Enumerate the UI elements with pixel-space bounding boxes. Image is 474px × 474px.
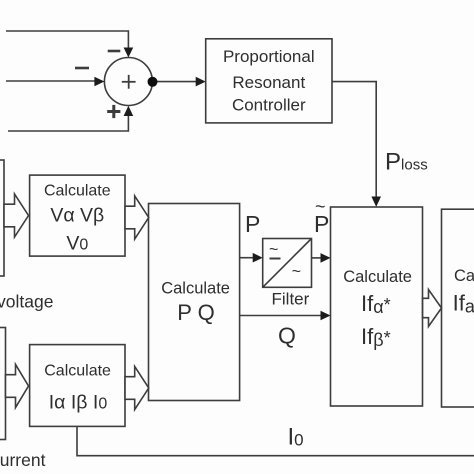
svg-text:Ploss: Ploss [385,149,428,176]
svg-text:Vα Vβ: Vα Vβ [50,204,104,226]
svg-text:Proportional: Proportional [223,47,315,66]
svg-text:~: ~ [269,242,278,259]
svg-text:P: P [245,211,260,237]
svg-text:Resonant: Resonant [232,73,305,92]
svg-text:Calculate: Calculate [44,363,111,380]
svg-text:Calculate: Calculate [343,268,412,286]
svg-text:Controller: Controller [232,96,306,115]
svg-text:~: ~ [292,264,301,281]
svg-text:Filter: Filter [272,290,310,309]
svg-text:I0: I0 [288,423,304,450]
svg-text:P Q: P Q [177,300,215,325]
svg-text:~: ~ [315,197,326,217]
svg-text:Iα Iβ I0: Iα Iβ I0 [49,391,108,413]
svg-text:voltage: voltage [0,292,53,312]
svg-text:current: current [0,450,46,470]
svg-text:Calculate: Calculate [454,267,474,285]
svg-text:Calculate: Calculate [161,280,230,298]
svg-text:Q: Q [278,323,296,349]
svg-text:V0: V0 [66,232,88,254]
svg-text:Calculate: Calculate [44,182,111,199]
